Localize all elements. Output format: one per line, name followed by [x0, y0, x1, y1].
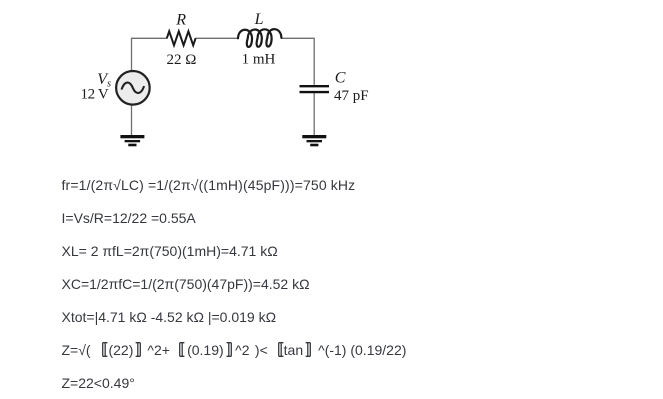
svg-text:22 Ω: 22 Ω [167, 52, 197, 68]
svg-text:47 pF: 47 pF [334, 88, 369, 104]
capacitor C top plate [300, 85, 330, 87]
ground (right, below capacitor) [302, 135, 326, 146]
wire: source top to resistor (node A) [132, 38, 168, 70]
ac source V_s circle [116, 71, 150, 105]
wire: source bottom to ground [131, 105, 133, 135]
wire: inductor to capacitor branch [281, 38, 314, 85]
wire: capacitor bottom to ground [313, 93, 315, 135]
svg-text:12 V: 12 V [81, 87, 109, 103]
svg-text:1 mH: 1 mH [242, 52, 276, 68]
equation line 4 [62, 274, 310, 294]
equation line 7 [62, 373, 135, 393]
equation line 2 [62, 208, 196, 228]
equation line 5 [62, 307, 277, 327]
svg-text:R: R [175, 12, 186, 29]
circuit schematic SVG [0, 0, 420, 160]
ac source sine wave [122, 83, 144, 93]
wire: resistor to inductor [195, 37, 238, 39]
equation line 1 [62, 175, 356, 195]
ground (left, below source) [120, 135, 144, 146]
svg-text:L: L [254, 11, 264, 28]
svg-text:C: C [335, 70, 346, 87]
equation line 3 [62, 241, 278, 261]
inductor L [238, 29, 281, 47]
equation line 6 [62, 340, 407, 360]
resistor R [167, 31, 196, 45]
capacitor C bottom plate [300, 91, 330, 93]
